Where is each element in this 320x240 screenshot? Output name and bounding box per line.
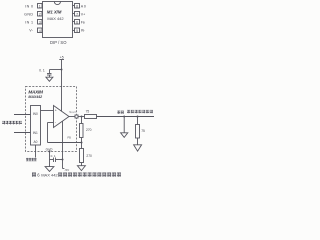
pin 3 box	[38, 20, 43, 25]
capacitor C2	[50, 159, 54, 161]
capacitor C1	[49, 70, 51, 74]
wire feedback horizontal	[48, 142, 82, 144]
wire V+	[61, 60, 63, 112]
svg-text:2: 2	[39, 12, 41, 16]
pin 1 box	[38, 4, 43, 9]
svg-text:75: 75	[141, 129, 145, 133]
pin 6 lead	[73, 21, 75, 23]
wire IN0 to op-amp	[41, 110, 54, 112]
pin 7 box	[75, 12, 80, 17]
label channel select (CJK)	[26, 158, 37, 161]
svg-text:IN 1: IN 1	[25, 20, 33, 24]
ground G4	[121, 133, 128, 138]
svg-text:IN-: IN-	[81, 29, 85, 33]
svg-text:V+: V+	[81, 12, 86, 16]
node cable	[123, 116, 125, 118]
pin labels right	[81, 4, 86, 32]
svg-text:3: 3	[39, 20, 41, 24]
wire output	[69, 116, 85, 118]
svg-text:FB: FB	[68, 135, 72, 139]
dashed box MAX442	[26, 87, 77, 152]
svg-text:270: 270	[86, 128, 92, 132]
pin 2 box	[38, 12, 43, 17]
wire load tap	[137, 117, 139, 125]
svg-text:MAX 442: MAX 442	[47, 16, 64, 21]
wire input 2	[14, 132, 31, 134]
svg-text:MAX 442: MAX 442	[41, 173, 58, 178]
svg-text:+5: +5	[60, 56, 64, 60]
svg-text:IN0: IN0	[33, 112, 38, 116]
svg-text:DIP / SO: DIP / SO	[50, 40, 67, 45]
node load	[137, 116, 139, 118]
svg-text:GND: GND	[24, 12, 33, 16]
ground G2	[77, 166, 85, 171]
wire cable gnd stub	[123, 117, 125, 133]
caption figure 6	[32, 172, 121, 177]
svg-text:FB: FB	[81, 20, 85, 24]
resistor R4 75	[136, 125, 140, 139]
wire load gnd	[137, 138, 139, 145]
wire VEE	[62, 122, 64, 169]
pin labels left	[24, 4, 34, 32]
svg-text:MAXIM: MAXIM	[28, 89, 43, 94]
svg-text:8: 8	[76, 4, 78, 8]
wire A0 select	[35, 145, 37, 158]
resistor R3 270	[80, 149, 84, 163]
pin 7 lead	[73, 13, 75, 15]
svg-text:5: 5	[76, 29, 78, 33]
svg-text:270: 270	[86, 154, 92, 158]
ground G1	[46, 77, 53, 81]
mux block	[31, 106, 41, 146]
svg-text:6: 6	[76, 20, 78, 24]
label video output (CJK)	[127, 110, 153, 113]
svg-text:A 0: A 0	[81, 4, 86, 8]
svg-text:MAX442: MAX442	[28, 95, 42, 99]
label video input (CJK)	[2, 121, 22, 124]
ground G5	[134, 145, 142, 151]
node fb	[81, 142, 83, 144]
resistor values	[86, 110, 145, 158]
wire feedback vertical	[47, 123, 49, 143]
pin 4 box	[38, 28, 43, 33]
wire cable	[97, 116, 155, 118]
pin 5 lead	[73, 30, 75, 32]
node vee cap	[62, 159, 64, 161]
mux labels	[33, 112, 38, 144]
notch	[54, 2, 60, 5]
+5 supply tick	[59, 59, 64, 61]
wire cap branch	[50, 69, 62, 71]
svg-text:+: +	[55, 109, 57, 113]
wire input 1	[14, 114, 31, 116]
pin numbers	[39, 4, 78, 33]
svg-text:V-: V-	[29, 29, 34, 33]
resistor R1 75	[85, 115, 97, 119]
svg-text:IN 0: IN 0	[25, 4, 33, 8]
op-amp U2	[54, 106, 70, 128]
svg-text:4: 4	[39, 29, 41, 33]
ground G3	[45, 167, 54, 172]
pin 8 box	[75, 4, 80, 9]
IC body U1 MAX442 DIP package	[38, 2, 80, 38]
wire GND pin	[49, 152, 51, 167]
svg-text:7: 7	[76, 12, 78, 16]
node gnd	[49, 151, 51, 153]
pin 6 box	[75, 20, 80, 25]
svg-text:1: 1	[39, 4, 41, 8]
node v+ cap	[61, 69, 63, 71]
wire inverting input	[48, 122, 54, 124]
svg-text:M1 X/M: M1 X/M	[47, 10, 62, 15]
out pin box	[75, 115, 78, 118]
pin 8 lead	[73, 5, 75, 7]
pin 5 box	[75, 28, 80, 33]
svg-text:75: 75	[86, 110, 90, 114]
svg-text:0. 1: 0. 1	[39, 68, 45, 72]
wire divider	[81, 117, 83, 166]
label cable (CJK)	[117, 111, 123, 114]
svg-text:A0: A0	[34, 140, 38, 144]
svg-text:IN1: IN1	[33, 131, 38, 135]
svg-text:0. 1: 0. 1	[51, 154, 56, 158]
node out	[81, 116, 83, 118]
wire VEE hook	[63, 168, 65, 170]
resistor R2 270	[80, 124, 84, 138]
